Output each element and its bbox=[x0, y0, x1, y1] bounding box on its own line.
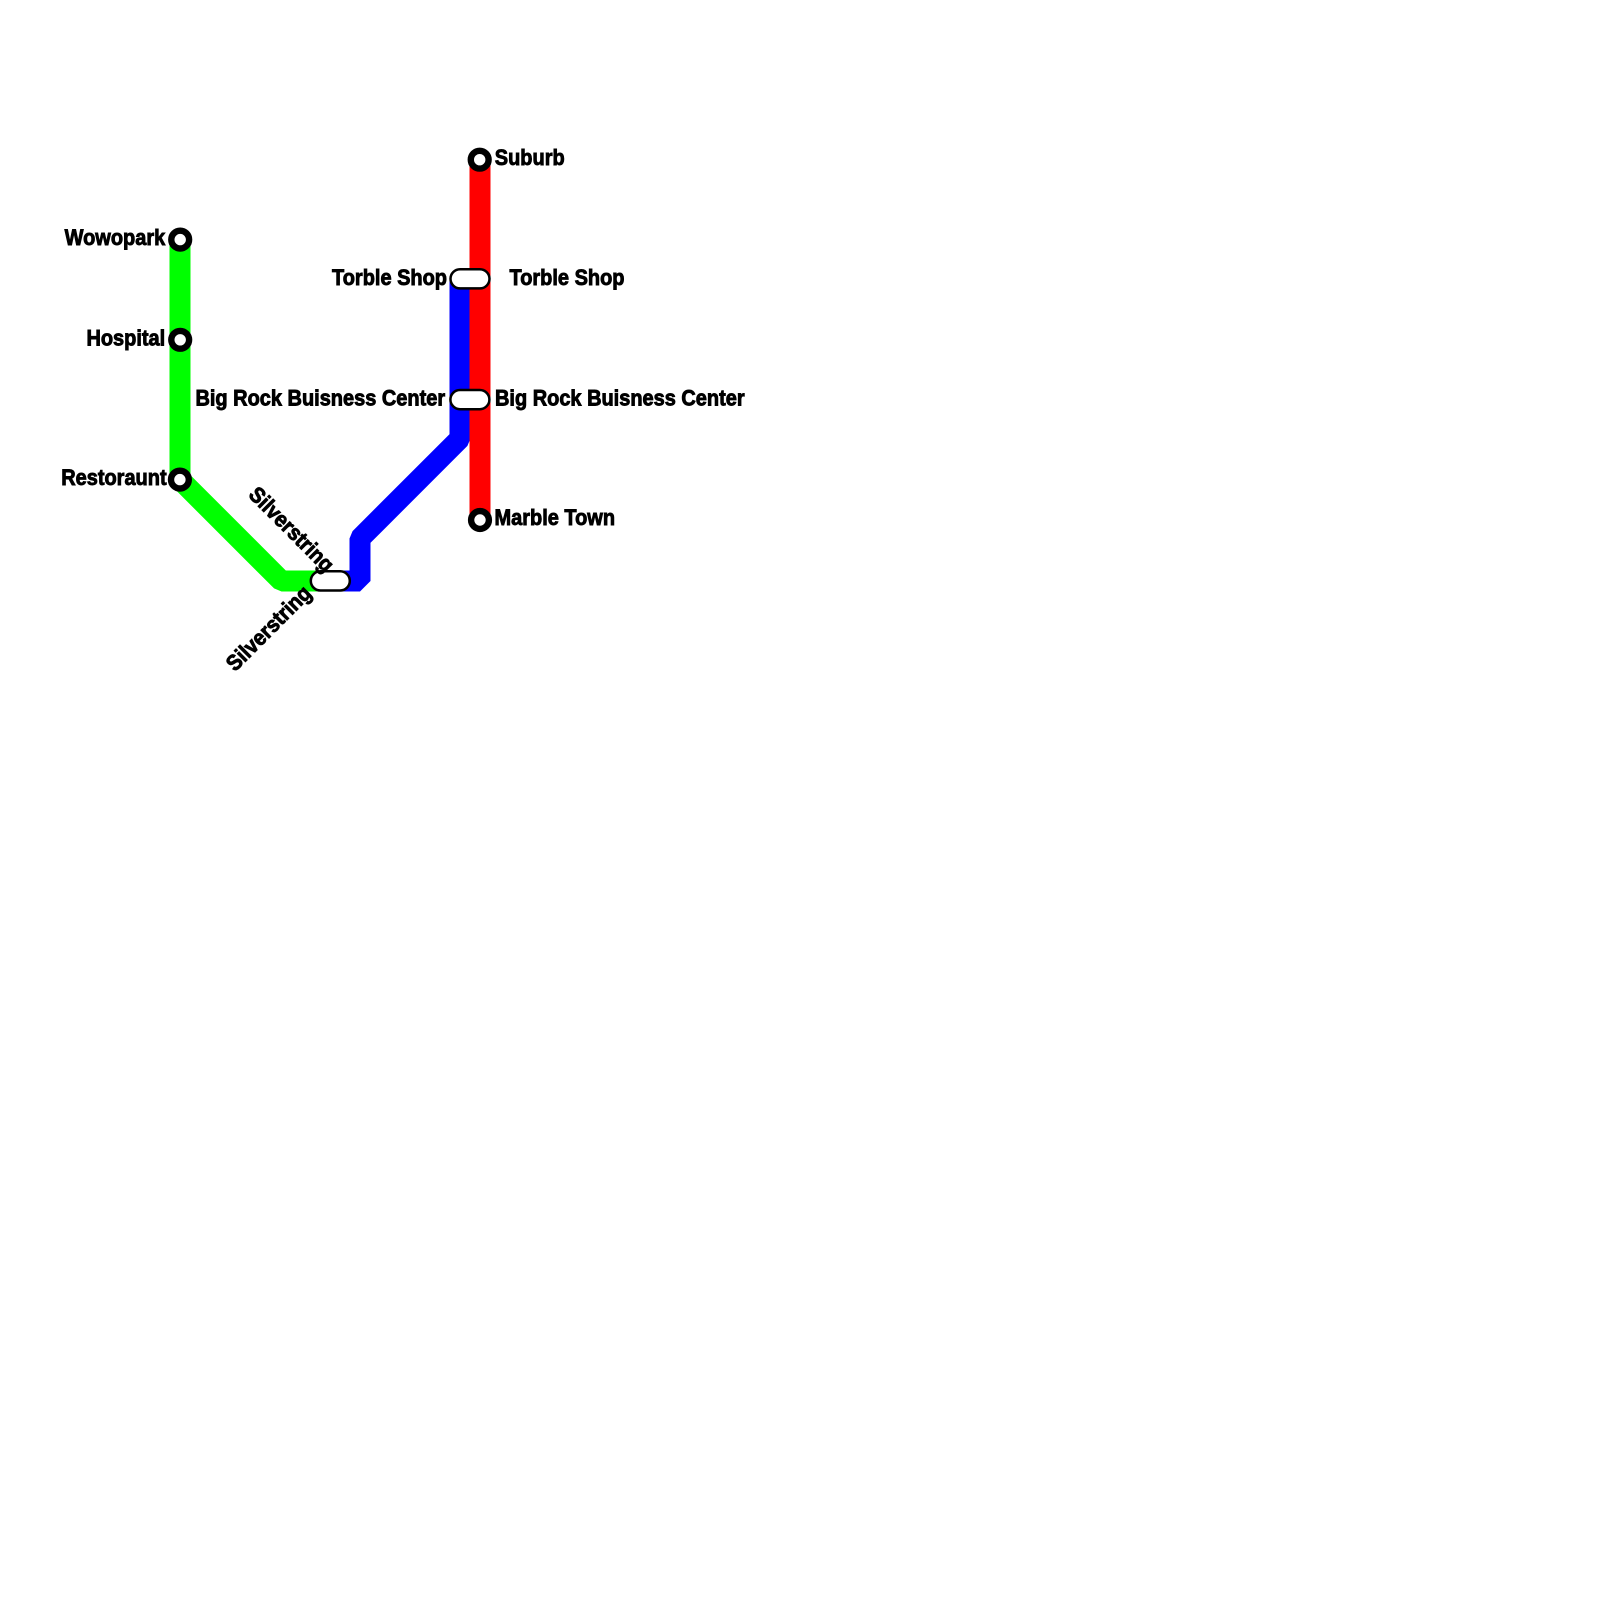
interchange Torble Shop bbox=[451, 269, 490, 288]
svg-text:Restoraunt: Restoraunt bbox=[61, 466, 166, 490]
red line Suburb-TorbleShop-BigRock-MarbleTown bbox=[470, 159, 491, 521]
svg-text:Hospital: Hospital bbox=[86, 327, 165, 351]
blue line TorbleShop-BigRock-Silverstring bbox=[331, 279, 461, 581]
interchange Silverstring bbox=[311, 571, 350, 590]
svg-text:Suburb: Suburb bbox=[495, 146, 565, 170]
svg-text:Big Rock Buisness Center: Big Rock Buisness Center bbox=[195, 387, 445, 411]
station Wowopark bbox=[171, 231, 189, 249]
interchange Big Rock Buisness Center bbox=[450, 390, 489, 409]
svg-text:Torble Shop: Torble Shop bbox=[332, 266, 447, 290]
green line Wowopark-Hospital-Restoraunt-Silverstring bbox=[180, 240, 331, 582]
station Restoraunt bbox=[171, 471, 189, 489]
svg-text:Big Rock Buisness Center: Big Rock Buisness Center bbox=[495, 387, 745, 411]
station Marble Town bbox=[471, 511, 489, 529]
station Suburb bbox=[471, 151, 489, 169]
svg-text:Wowopark: Wowopark bbox=[65, 226, 166, 250]
station Hospital bbox=[171, 331, 189, 349]
svg-text:Marble Town: Marble Town bbox=[495, 506, 616, 530]
svg-text:Torble Shop: Torble Shop bbox=[510, 266, 625, 290]
